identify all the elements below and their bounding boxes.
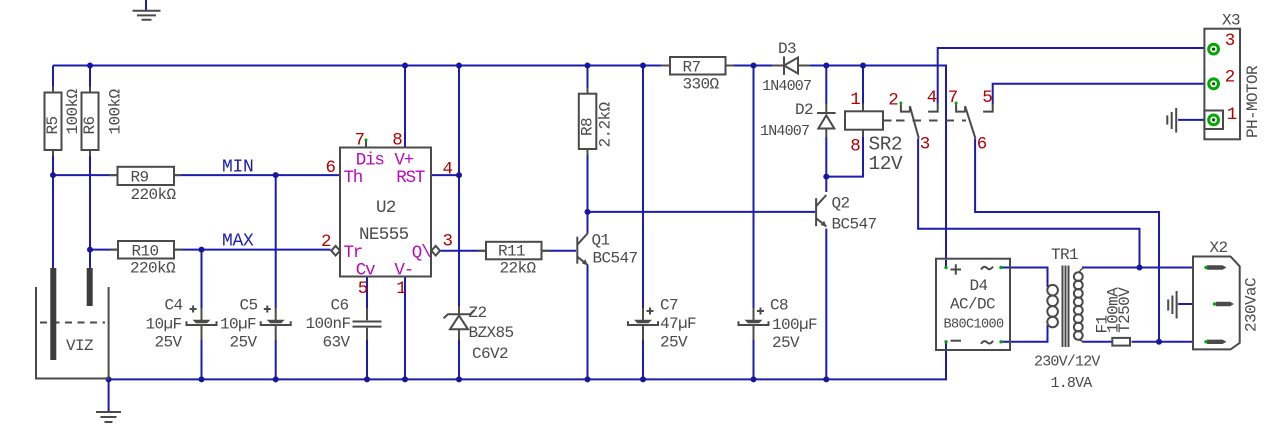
svg-text:R10: R10 [132,242,159,260]
earth symbol at X2 [1168,291,1176,319]
svg-text:B80C1000: B80C1000 [944,318,1005,333]
svg-text:VIZ: VIZ [66,337,94,355]
wire Q2 emitter to ground rail [825,229,827,380]
svg-text:5: 5 [358,279,368,299]
svg-text:100µF: 100µF [772,316,817,334]
svg-text:1: 1 [1227,105,1237,125]
svg-text:BZX85: BZX85 [469,324,514,342]
wire relay contact 3 to mains live node [918,139,1139,268]
svg-text:C5: C5 [240,297,258,315]
junction dot Q1 collector / Q2 base [585,209,591,215]
wire node MAX: R6 to R10 [90,249,118,251]
ground symbol top [133,11,161,20]
X3 pad 3 [1209,44,1219,54]
svg-text:X2: X2 [1210,239,1228,257]
X3 pin 1 sub-box [1204,111,1223,130]
resistor R9 [109,167,181,185]
bridge rectifier D4 box [936,259,1010,350]
svg-text:R8: R8 [579,118,597,136]
X2 pin (earth) [1213,302,1234,306]
wire TR1 primary top to X2 pin (live) [1082,267,1206,269]
relay contact lever 7-6 [965,106,975,138]
ground symbol bottom (tank) [96,412,121,422]
capacitor C5 (electrolytic) [261,306,291,341]
svg-text:PH-MOTOR: PH-MOTOR [1244,65,1262,138]
svg-text:8: 8 [392,131,402,151]
capacitor C4 (electrolytic) [187,306,217,341]
svg-text:Z2: Z2 [469,304,487,322]
wire C6 to ground rail [366,328,368,379]
wire C5 to ground rail [275,340,277,379]
wire 6.2V top rail (left section) [53,65,662,67]
wire TR1 primary bottom to fuse F1 [1082,341,1114,343]
svg-text:12V: 12V [869,153,903,175]
svg-text:AC/DC: AC/DC [950,296,995,314]
svg-text:MIN: MIN [222,157,254,177]
svg-text:U2: U2 [376,198,396,218]
wire Q1 collector node to Q2 base [588,211,816,213]
connector X2 box [1193,257,1240,350]
junction dots on MAX net [87,247,93,253]
relay contact lever 2-3 [910,106,919,138]
U2 Q\ pin inversion diamond [431,246,440,256]
wire C4 to MAX net [201,250,203,308]
svg-text:C6: C6 [331,297,349,315]
svg-text:230V/12V: 230V/12V [1034,354,1100,371]
wire 12V rail from D3 to D4 + pin [810,66,946,268]
svg-text:1N4007: 1N4007 [762,78,811,95]
junction dots on MIN net [50,172,56,178]
wire rail to R8 top [587,66,589,94]
svg-text:1: 1 [396,279,406,299]
svg-text:8: 8 [850,137,860,157]
diode D3 [772,56,810,75]
capacitor C6 (film) [353,308,382,340]
svg-text:25V: 25V [772,334,800,352]
svg-text:C7: C7 [660,297,678,315]
svg-text:25V: 25V [230,334,258,352]
junction dots on top rail [87,63,93,69]
X2 pin (live) [1204,265,1226,269]
svg-text:BC547: BC547 [832,216,877,234]
wire R5 bottom to electrode 1 [52,150,54,268]
svg-text:Q2: Q2 [832,195,850,213]
svg-text:6: 6 [326,158,336,178]
svg-text:V-: V- [394,261,413,281]
wire ground rail to ground symbol [108,379,110,411]
svg-text:22kΩ: 22kΩ [500,260,537,278]
wire R5 top to rail [52,66,54,93]
svg-text:TR1: TR1 [1051,246,1078,264]
svg-text:7: 7 [948,88,958,108]
wire top ground stem [145,0,147,10]
electrode 2 (in tank) [87,268,93,306]
wire R6 bottom to electrode 2 [89,150,91,268]
svg-text:R11: R11 [498,243,525,261]
resistor R11 [478,242,550,259]
electrode 1 (in tank) [50,268,56,360]
svg-text:R5: R5 [44,116,62,134]
svg-text:63V: 63V [323,334,351,352]
wire C5 to MIN net [275,175,277,308]
wire RST pin 4 to Z2 line [431,174,459,176]
svg-text:NE555: NE555 [359,225,409,245]
svg-text:R6: R6 [81,116,99,134]
wire X2 middle pin to earth [1178,303,1214,305]
svg-text:2: 2 [321,232,331,252]
wire relay contact 4 to X3 pin 3 [938,48,1207,104]
wire top rail between R7 and D3 [734,65,773,67]
svg-text:RST: RST [396,168,425,188]
D4 pin wire stubs inside box [946,260,1009,349]
wire node MIN: R5 to R9 [53,174,117,176]
svg-text:3: 3 [443,232,453,252]
svg-text:2.2kΩ: 2.2kΩ [597,102,615,148]
U2 pin 7 stub (Dis, unconnected) [365,141,367,148]
wire Cv pin 5 to C6 [366,277,368,321]
wire C4 to ground rail [201,340,203,379]
wire relay coil pin 8 to D2/Q2 node [826,137,863,177]
svg-text:5: 5 [982,88,992,108]
wire X3 pin 1 to earth [1178,119,1207,121]
transistor Q2 BC547 [816,195,827,227]
wire D2 anode to Q2 collector [825,137,827,192]
wire Q\ pin 3 to R11 [441,250,487,252]
transformer TR1 primary winding [1074,268,1084,342]
resistor R10 [110,241,182,259]
svg-text:D4: D4 [970,277,988,295]
capacitor C8 (electrolytic) [739,308,769,341]
X3 pad 2 [1209,79,1219,89]
fuse F1 [1112,338,1130,346]
svg-text:2: 2 [888,90,898,110]
resistor R5 [45,87,62,157]
svg-text:10µF: 10µF [220,316,256,334]
wire rail to relay coil pin 1 [862,66,864,105]
wire rail to D2 cathode [825,66,827,105]
wire rail to C7 [642,66,644,309]
wire C7 to ground rail [642,340,644,379]
svg-text:1N4007: 1N4007 [760,123,809,140]
svg-text:25V: 25V [155,334,183,352]
wire R11 to Q1 base [542,250,577,252]
svg-text:100kΩ: 100kΩ [64,89,82,135]
wire C8 to ground rail [753,340,755,379]
svg-text:25V: 25V [660,334,688,352]
resistor R8 [579,88,597,155]
wire Q1 emitter to ground rail [587,265,589,380]
wire relay contact 5 to X3 pin 2 [993,84,1207,104]
svg-text:6: 6 [977,135,987,155]
svg-text:10µF: 10µF [146,316,182,334]
svg-text:T250V: T250V [1116,287,1134,333]
resistor R7 [661,57,734,75]
capacitor C7 (electrolytic) [628,308,658,341]
wire node MIN: R9 to Th pin [173,174,340,176]
wire R6 top to rail [89,66,91,93]
earth symbol at X3 [1167,108,1176,133]
svg-text:Q\: Q\ [412,243,431,263]
svg-text:230VaC: 230VaC [1243,278,1261,332]
resistor R6 [82,87,99,157]
wire fuse F1 to X2 pin (neutral) [1132,341,1207,343]
relay coil SR2 [845,104,883,137]
relay contact pin 5 stub [983,104,993,112]
IC U2 NE555 box [340,148,431,277]
water level dashed line [40,322,105,324]
transistor Q1 BC547 [577,234,588,266]
svg-text:2: 2 [1225,68,1235,88]
zener diode Z2 [444,306,475,340]
svg-text:7: 7 [355,131,365,151]
junction dot D2 / relay coil / Q2 collector [823,174,829,180]
wire rail to C8 [753,66,755,309]
wire rail to RST junction [458,66,460,307]
svg-text:R9: R9 [131,169,149,187]
svg-text:C6V2: C6V2 [472,345,508,363]
wire TR1 secondary bottom to D4 ~ pin [1001,325,1048,342]
U2 Tr pin inversion diamond [331,246,340,256]
svg-text:D3: D3 [778,40,796,58]
svg-text:330Ω: 330Ω [683,76,720,94]
svg-text:1.8VA: 1.8VA [1051,375,1093,392]
svg-text:220kΩ: 220kΩ [131,186,177,204]
junction dot mains neutral node [1156,339,1162,345]
D4 ~ pin (bottom) [981,341,993,344]
svg-text:100kΩ: 100kΩ [107,89,125,135]
svg-text:4: 4 [927,88,937,108]
svg-text:1: 1 [850,90,860,110]
svg-text:Th: Th [344,168,363,188]
water tank VIZ [36,287,109,379]
D4 + pin [951,264,962,275]
svg-text:47µF: 47µF [660,315,696,333]
relay contact pin 7 stub [956,104,965,111]
relay mechanical link (dashed) [883,120,892,122]
transformer TR1 secondary winding [1047,285,1058,327]
relay contact pin 4 stub [928,104,938,112]
svg-text:MAX: MAX [222,231,254,251]
relay contact pin 2 stub [901,104,910,111]
wire V- pin 1 to ground rail [404,277,406,380]
svg-text:4: 4 [443,160,453,180]
D4 - pin [951,340,962,342]
svg-text:3: 3 [920,135,930,155]
svg-text:C8: C8 [770,297,788,315]
wire relay contact 6 to mains fuse node [975,139,1159,342]
svg-text:BC547: BC547 [593,250,638,268]
svg-text:Q1: Q1 [592,232,610,250]
X2 pin (neutral) [1204,340,1226,344]
junction dots on ground rail [106,376,112,382]
svg-text:D2: D2 [795,101,813,119]
D4 ~ pin (top) [981,267,993,270]
svg-text:3: 3 [1225,31,1235,51]
svg-text:100nF: 100nF [306,315,351,333]
diode D2 [817,104,836,137]
wire Z2 to ground rail [458,340,460,379]
wire node MAX: R10 to Tr pin [174,249,331,251]
wire R8 bottom to Q1 collector [587,149,589,234]
wire ground rail (bottom) to D4 - pin [109,342,946,380]
wire V+ pin 8 to rail [404,66,406,148]
junction dot mains live node [1137,265,1143,271]
svg-text:Cv: Cv [356,261,375,281]
X3 pad 1 [1209,115,1219,125]
svg-text:220kΩ: 220kΩ [130,260,176,278]
connector X3 box [1204,29,1240,140]
svg-text:C4: C4 [165,297,183,315]
wire D4 ~ pin to TR1 secondary top [1001,268,1048,288]
transformer TR1 core [1063,266,1069,348]
svg-text:X3: X3 [1222,12,1240,30]
svg-text:R7: R7 [683,59,701,77]
